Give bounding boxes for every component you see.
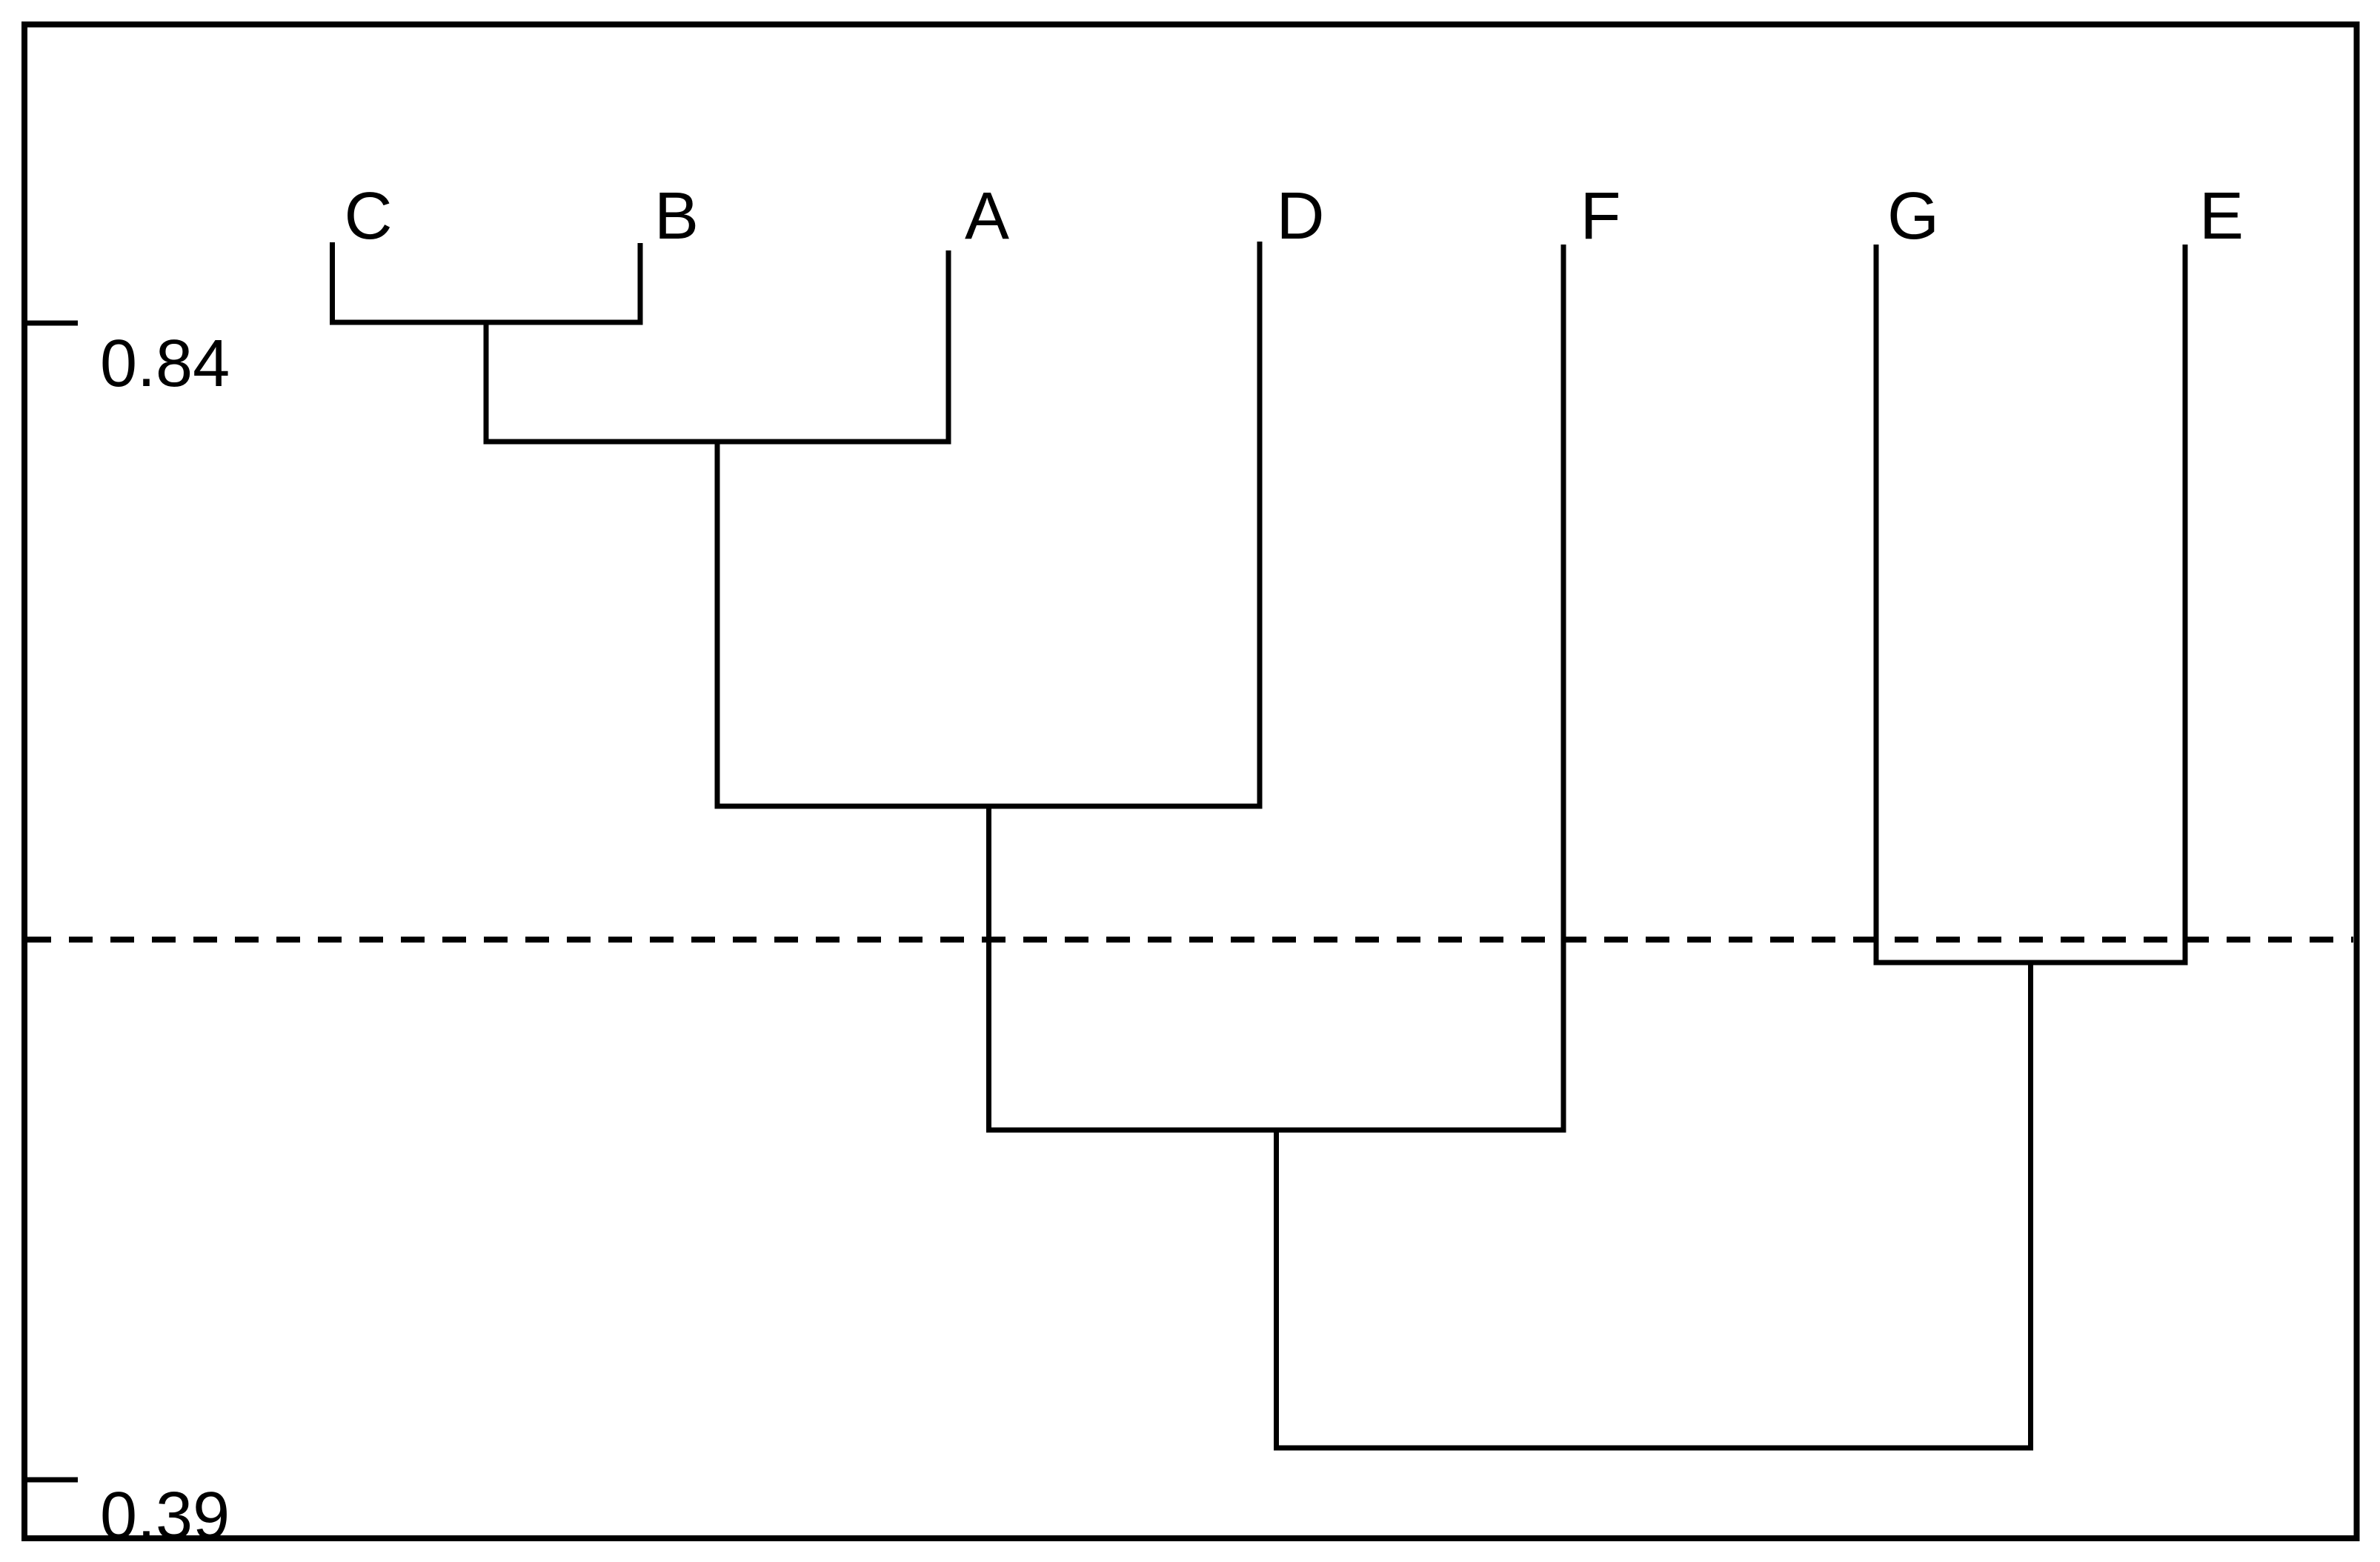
svg-text:G: G xyxy=(1887,179,1939,253)
axis tick 0.84 xyxy=(27,321,78,326)
svg-text:F: F xyxy=(1580,179,1621,253)
leaf G branch xyxy=(1874,245,1879,963)
drop node GE xyxy=(2028,963,2033,1448)
svg-text:B: B xyxy=(654,179,699,253)
svg-text:0.84: 0.84 xyxy=(100,327,230,401)
svg-text:0.39: 0.39 xyxy=(100,1479,230,1553)
axis tick 0.39 xyxy=(27,1478,78,1483)
join G-E xyxy=(1874,960,2188,966)
join C-B xyxy=(330,320,643,325)
drop node CBA xyxy=(715,442,720,806)
join CBA-D xyxy=(715,804,1263,809)
root join xyxy=(1274,1446,2033,1451)
join CB-A xyxy=(484,439,951,445)
leaf D branch xyxy=(1257,242,1263,806)
drop node CBAD xyxy=(986,806,991,1130)
join CBAD-F xyxy=(986,1128,1566,1133)
drop node CB xyxy=(484,322,489,442)
svg-text:D: D xyxy=(1277,179,1325,253)
drop node CBADF xyxy=(1274,1130,1279,1448)
leaf F branch xyxy=(1561,245,1566,1130)
leaf A branch xyxy=(946,250,951,442)
threshold dashed line xyxy=(27,937,2353,943)
svg-text:A: A xyxy=(965,179,1009,253)
leaf C branch xyxy=(330,242,335,322)
leaf E branch xyxy=(2183,245,2188,963)
svg-text:C: C xyxy=(345,179,393,253)
leaf B branch xyxy=(638,243,643,322)
svg-text:E: E xyxy=(2199,179,2244,253)
